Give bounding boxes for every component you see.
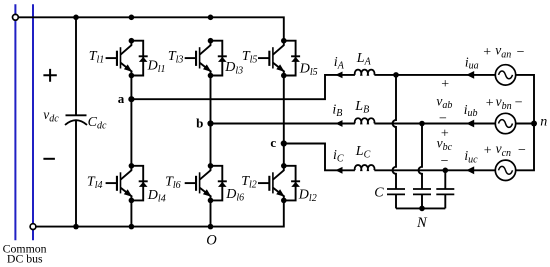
terminal circle on DC bus negative bbox=[30, 224, 36, 230]
label LA bbox=[356, 51, 372, 68]
junction dot Tl3 emitter bbox=[208, 73, 214, 79]
node n bbox=[531, 115, 547, 130]
junction dot Tl1 emitter bbox=[129, 73, 135, 79]
label iA bbox=[334, 55, 345, 72]
label Dl3 bbox=[224, 60, 243, 77]
junction dot line A cap bbox=[393, 72, 399, 78]
terminal circle on DC bus positive bbox=[13, 14, 19, 20]
source vcn bbox=[495, 160, 515, 180]
capacitor C phase c bbox=[436, 189, 454, 208]
diode Dl1 bbox=[131, 41, 147, 76]
wire leg2 lower bbox=[210, 200, 212, 226]
label Tl2 bbox=[241, 174, 257, 191]
wire cap branch C bbox=[444, 170, 446, 189]
transistor Tl3 bbox=[185, 41, 212, 76]
svg-text:a: a bbox=[118, 91, 125, 106]
wire cap branch B bbox=[419, 124, 422, 190]
inductor LA bbox=[355, 70, 375, 75]
label vbc minus bbox=[441, 154, 449, 169]
current arrow iua bbox=[466, 71, 474, 79]
label Tl1 bbox=[89, 49, 105, 66]
junction dot Tl6 collector bbox=[208, 163, 214, 169]
wire leg3 mid bbox=[283, 76, 285, 166]
wire line B right bbox=[374, 123, 495, 125]
capacitor C phase a bbox=[387, 189, 405, 208]
capacitor C phase b bbox=[413, 189, 431, 208]
svg-text:−: − bbox=[439, 111, 447, 126]
svg-text:−: − bbox=[441, 154, 449, 169]
junction dot Tl5 collector bbox=[281, 38, 287, 44]
svg-text:+: + bbox=[486, 96, 494, 111]
label vab plus bbox=[441, 77, 449, 92]
label LC bbox=[355, 144, 371, 161]
transistor Tl5 bbox=[258, 41, 285, 76]
wire leg1 mid bbox=[130, 76, 132, 166]
svg-text:+: + bbox=[483, 45, 491, 60]
svg-text:c: c bbox=[270, 135, 276, 150]
diode Dl4 bbox=[131, 166, 147, 201]
junction dot Tl4 collector bbox=[129, 163, 135, 169]
svg-text:−: − bbox=[515, 95, 523, 110]
junction dot leg1 top bbox=[129, 14, 135, 20]
label Tl6 bbox=[165, 174, 181, 191]
junction dot Tl2 emitter bbox=[281, 198, 287, 204]
label Dl2 bbox=[298, 187, 317, 204]
junction dot leg2 bottom bbox=[208, 224, 214, 230]
svg-text:−: − bbox=[518, 143, 526, 158]
wire negative DC rail bbox=[36, 200, 284, 226]
wire cap branch A bbox=[393, 75, 397, 189]
svg-text:−: − bbox=[517, 45, 525, 60]
node N bbox=[416, 206, 428, 231]
source vbn bbox=[495, 113, 515, 133]
node c bbox=[270, 135, 286, 150]
svg-text:n: n bbox=[540, 115, 547, 130]
transistor Tl2 bbox=[258, 166, 285, 201]
diode Dl3 bbox=[211, 41, 227, 76]
svg-text:N: N bbox=[416, 215, 428, 231]
wire line A right bbox=[374, 74, 495, 76]
label vab minus bbox=[439, 111, 447, 126]
source van bbox=[495, 65, 515, 85]
junction dot Tl3 collector bbox=[208, 38, 214, 44]
junction dot Tl6 emitter bbox=[208, 198, 214, 204]
label Cdc bbox=[88, 115, 107, 132]
label Tl3 bbox=[168, 49, 184, 66]
svg-text:DC bus: DC bus bbox=[7, 251, 43, 265]
wire positive DC rail bbox=[18, 17, 284, 40]
current arrow iub bbox=[466, 120, 474, 128]
label Dl4 bbox=[147, 188, 166, 205]
label vbc bbox=[437, 136, 453, 153]
svg-text:b: b bbox=[196, 116, 203, 131]
transistor Tl4 bbox=[106, 166, 133, 201]
inductor LC bbox=[355, 165, 375, 170]
wire phase b line bbox=[211, 123, 355, 125]
junction dot Tl5 emitter bbox=[281, 73, 287, 79]
junction dot line C cap bbox=[443, 168, 449, 174]
minus sign vdc bbox=[43, 158, 55, 160]
diode Dl2 bbox=[284, 166, 300, 201]
label Tl4 bbox=[87, 174, 103, 191]
junction dot Tl1 collector bbox=[129, 38, 135, 44]
label vbn row bbox=[486, 94, 523, 112]
junction dot Cdc bottom bbox=[73, 224, 79, 230]
diode Dl5 bbox=[284, 41, 300, 76]
junction dot leg2 top bbox=[208, 14, 214, 20]
label vab bbox=[436, 93, 452, 111]
label van row bbox=[483, 43, 524, 61]
plus sign vdc bbox=[43, 69, 56, 82]
wire capacitor star bbox=[396, 207, 445, 209]
wire leg2 mid bbox=[210, 76, 212, 166]
wire phase c to line C bbox=[284, 144, 355, 171]
node b bbox=[196, 116, 213, 131]
svg-text:C: C bbox=[374, 185, 384, 200]
label LB bbox=[354, 99, 369, 116]
wire vbn right bbox=[516, 123, 534, 125]
junction dot Tl2 collector bbox=[281, 163, 287, 169]
label iC bbox=[333, 148, 344, 165]
label C bbox=[374, 185, 384, 200]
wire line C right bbox=[374, 169, 495, 171]
junction dot Tl4 emitter bbox=[129, 198, 135, 204]
label iuc bbox=[464, 148, 478, 165]
label Dl5 bbox=[299, 62, 318, 79]
common DC bus line 2 (blue) bbox=[32, 4, 34, 240]
label Tl5 bbox=[242, 49, 258, 66]
transistor Tl1 bbox=[106, 41, 133, 76]
label vcn row bbox=[484, 141, 526, 159]
label iB bbox=[332, 103, 342, 120]
transistor Tl6 bbox=[185, 166, 212, 201]
junction dot line B cap bbox=[419, 121, 425, 127]
current arrow iB bbox=[335, 120, 342, 127]
wire leg1 lower bbox=[130, 200, 132, 226]
svg-text:+: + bbox=[441, 77, 449, 92]
capacitor Cdc bbox=[65, 17, 87, 226]
label vdc bbox=[43, 107, 59, 125]
junction dot Cdc top bbox=[73, 14, 79, 20]
label Common DC bus bbox=[3, 241, 47, 265]
diode Dl6 bbox=[211, 166, 227, 201]
current arrow iC bbox=[335, 167, 342, 174]
label iua bbox=[465, 54, 479, 71]
svg-text:+: + bbox=[484, 144, 492, 159]
node a bbox=[118, 91, 135, 106]
svg-text:O: O bbox=[206, 232, 217, 248]
common DC bus line 1 (blue) bbox=[14, 4, 16, 240]
current arrow iuc bbox=[466, 166, 474, 174]
wire van right to n bus bbox=[516, 75, 534, 170]
label iub bbox=[464, 102, 478, 119]
junction dot leg1 bottom bbox=[129, 224, 135, 230]
label Dl1 bbox=[147, 58, 166, 75]
label vbc plus bbox=[441, 127, 449, 142]
wire phase a to line A bbox=[131, 75, 355, 99]
current arrow iA bbox=[335, 72, 342, 79]
node O label bbox=[206, 232, 217, 248]
inductor LB bbox=[355, 118, 375, 123]
label Dl6 bbox=[225, 187, 244, 204]
